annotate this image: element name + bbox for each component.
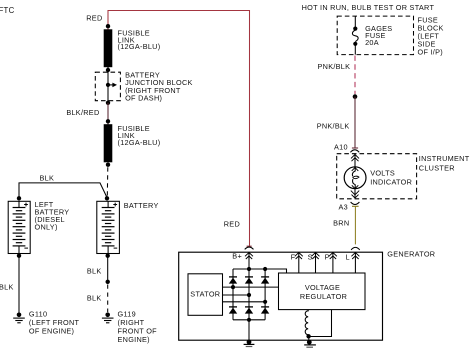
ground G110 — [13, 313, 25, 323]
node dot rail right column — [263, 267, 267, 271]
wire BLK/RED segment — [107, 103, 109, 125]
svg-text:F: F — [291, 253, 296, 262]
node battery B1 bottom dot — [17, 254, 21, 258]
battery junction block dashed box — [95, 72, 120, 101]
fuse block label — [418, 15, 444, 56]
svg-text:OF ENGINE): OF ENGINE) — [29, 327, 74, 336]
connector at L (arc) — [351, 247, 360, 250]
voltage regulator label — [300, 283, 347, 301]
wire BLK solid below battery B2 — [107, 256, 109, 282]
svg-text:INDICATOR: INDICATOR — [370, 178, 412, 187]
ground G119 — [102, 313, 114, 323]
voltage regulator box — [279, 273, 366, 310]
indicator label — [370, 168, 412, 186]
node dot phase C right column — [263, 300, 267, 304]
terminal B+ arrow — [245, 252, 253, 269]
wire stator phase C — [223, 301, 266, 303]
fuse label — [365, 24, 392, 47]
wire stator phase A — [223, 286, 279, 288]
fuse block dashed box — [337, 16, 413, 55]
svg-text:BLK: BLK — [87, 267, 102, 276]
svg-text:VOLTAGE: VOLTAGE — [305, 283, 340, 292]
stator box — [188, 274, 223, 316]
svg-text:FTC: FTC — [0, 6, 15, 15]
svg-text:S: S — [308, 253, 313, 262]
node dot coil junction — [306, 334, 310, 338]
connector A10 (T-bar and arc) — [350, 148, 359, 152]
fusible link F2 body — [104, 124, 113, 162]
node junction dot above fusible link F1 — [106, 24, 110, 28]
svg-text:ENGINE): ENGINE) — [118, 335, 150, 344]
svg-text:PNK/BLK: PNK/BLK — [317, 121, 350, 130]
svg-text:RED: RED — [86, 13, 102, 22]
connector A3 (arc and T-bar) — [351, 202, 360, 206]
wire RED main (fusible link to generator B+) — [108, 11, 250, 246]
wire through battery junction block — [107, 67, 109, 103]
svg-text:PNK/BLK: PNK/BLK — [318, 62, 351, 71]
wire BLK dashed to ground G119 — [107, 285, 109, 313]
battery B2 — [97, 201, 120, 253]
svg-text:STATOR: STATOR — [190, 290, 220, 299]
wire coil to ground — [308, 336, 310, 341]
diode D2 (upper middle) — [245, 277, 253, 284]
svg-text:BLK: BLK — [40, 174, 55, 183]
ground G119 label — [118, 310, 158, 345]
ground field (below generator) — [304, 340, 316, 347]
diode D5 (lower middle) — [245, 307, 253, 314]
node dot phase B middle column — [247, 293, 251, 297]
svg-text:BATTERY: BATTERY — [124, 201, 159, 210]
battery B1 (left battery) — [8, 201, 30, 253]
svg-text:VOLTS: VOLTS — [370, 168, 395, 177]
fusible link F1 label — [118, 28, 161, 51]
connector arrow out of cluster (down) — [351, 185, 359, 198]
svg-text:RED: RED — [224, 220, 240, 229]
node battery B2 bottom dot — [106, 254, 110, 258]
wire PNK/BLK solid to A10 — [354, 97, 356, 148]
svg-text:L: L — [345, 253, 349, 262]
wire diode column right — [264, 269, 266, 320]
wire BLK to ground G110 — [18, 256, 20, 315]
svg-text:A3: A3 — [339, 203, 349, 212]
svg-text:BLK: BLK — [87, 293, 102, 302]
svg-text:GENERATOR: GENERATOR — [387, 249, 435, 258]
svg-text:INSTRUMENT: INSTRUMENT — [419, 154, 470, 163]
wire PNK/BLK dashed — [354, 56, 356, 95]
wire diode column left — [232, 269, 234, 320]
wire BLK dashed down to battery — [106, 167, 109, 196]
fusible link F2 label — [118, 124, 161, 147]
wire BLK between batteries — [19, 183, 107, 198]
svg-text:(12GA-BLU): (12GA-BLU) — [118, 138, 161, 147]
terminal P arrow — [329, 252, 337, 273]
instrument cluster label — [419, 154, 470, 172]
indicator lamp VOLTS (circle with filament) — [344, 167, 366, 189]
wire top rail to regulator — [233, 269, 287, 273]
svg-text:BLK: BLK — [0, 283, 14, 292]
svg-text:(12GA-BLU): (12GA-BLU) — [118, 42, 161, 51]
wire regulator bottom right leg — [309, 310, 332, 337]
node dot phase A left column — [231, 285, 235, 289]
wire BRN — [354, 206, 356, 244]
svg-text:BLK/RED: BLK/RED — [66, 108, 99, 117]
node dot B+ rail — [247, 267, 251, 271]
node battery B2 top dot — [105, 196, 109, 200]
node junction dot below battery B2 — [106, 280, 110, 284]
diode D3 (upper right) — [261, 277, 269, 284]
svg-text:OF I/P): OF I/P) — [418, 47, 443, 56]
fusible link F1 body — [104, 29, 113, 67]
wire diode column middle — [248, 269, 250, 342]
terminal L arrow — [351, 252, 359, 273]
node junction dot below fusible link F2 — [106, 163, 110, 167]
ground G110 label — [29, 310, 80, 336]
node dot bottom rail middle — [247, 318, 251, 322]
node junction dot below fusible link F1 — [106, 68, 110, 72]
svg-text:A10: A10 — [334, 143, 348, 152]
svg-text:HOT IN RUN, BULB TEST OR START: HOT IN RUN, BULB TEST OR START — [302, 3, 435, 12]
instrument cluster dashed box — [337, 154, 417, 199]
fuse GAGES 20A symbol — [352, 16, 358, 55]
node battery B1 top dot — [17, 196, 21, 200]
svg-text:B+: B+ — [232, 252, 242, 261]
svg-text:REGULATOR: REGULATOR — [300, 292, 347, 301]
terminal S arrow — [312, 252, 320, 273]
node splice dot — [353, 94, 358, 99]
svg-text:P: P — [325, 253, 330, 262]
diode D6 (lower right) — [261, 307, 269, 314]
terminal F arrow — [295, 252, 303, 273]
diode D4 (lower left) — [229, 307, 237, 314]
node junction dot above fusible link F2 — [106, 119, 110, 123]
wire bottom rail — [233, 319, 265, 321]
battery junction block label — [125, 71, 193, 103]
svg-text:ONLY): ONLY) — [35, 223, 58, 232]
svg-text:CLUSTER: CLUSTER — [419, 163, 455, 172]
svg-text:BRN: BRN — [333, 219, 349, 228]
inductor field coil — [305, 310, 308, 337]
svg-text:20A: 20A — [365, 38, 379, 47]
battery B1 label — [35, 200, 70, 232]
ground rectifier (below generator) — [244, 340, 255, 347]
node junction dot below block — [106, 101, 110, 105]
generator box — [179, 252, 383, 340]
diode D1 (upper left) — [229, 277, 237, 284]
connector at B+ (T-bar and arc) — [245, 246, 254, 249]
node junction block tap dot and arrow — [106, 83, 117, 88]
svg-text:OF DASH): OF DASH) — [125, 94, 162, 103]
connector arrow into cluster (up) — [351, 154, 359, 171]
wire stator phase B — [223, 294, 250, 296]
